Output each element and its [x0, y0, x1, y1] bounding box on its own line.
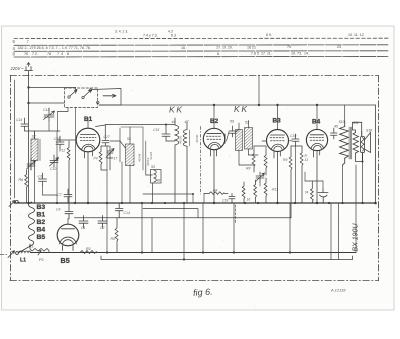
svg-text:53: 53 — [127, 137, 131, 141]
chassis frame right edge — [378, 76, 380, 281]
svg-text:16.: 16. — [181, 46, 186, 50]
wire y194 — [143, 193, 193, 195]
svg-text:75: 75 — [287, 45, 291, 49]
speaker — [361, 132, 371, 162]
band switch wavy wire — [20, 202, 35, 252]
bus y252 — [31, 252, 357, 254]
chassis frame left edge — [10, 76, 12, 281]
node speaker return — [362, 161, 364, 163]
svg-text:7.4 y 7.3.: 7.4 y 7.3. — [143, 34, 158, 38]
trimmer lower-left — [27, 158, 36, 170]
svg-text:R9: R9 — [283, 158, 287, 162]
switch contact 2 — [82, 96, 84, 98]
svg-text:C14: C14 — [16, 118, 22, 122]
node right bus end — [374, 202, 377, 205]
bus y215 — [75, 217, 292, 219]
svg-text:A 12118: A 12118 — [330, 288, 346, 293]
resistor right of B2 — [264, 178, 267, 203]
wire mains down — [28, 75, 30, 203]
svg-text:S10: S10 — [339, 120, 345, 124]
wire B3 grid left — [262, 140, 302, 203]
table line 4 — [14, 55, 388, 58]
svg-text:Κ Κ: Κ Κ — [234, 104, 247, 114]
wire drop x120 — [110, 128, 120, 162]
svg-text:18 21: 18 21 — [247, 45, 256, 49]
svg-text:17. 19. 20.: 17. 19. 20. — [216, 46, 233, 50]
svg-text:182 2-. 279 26.6. 8 7.5. 7 -.: 182 2-. 279 26.6. 8 7.5. 7 -. 1.9. 77 71… — [18, 46, 91, 50]
resistor R6 — [25, 170, 28, 203]
svg-text:44: 44 — [172, 120, 176, 124]
svg-text:S2: S2 — [32, 135, 36, 139]
trimmer C10 — [50, 155, 59, 167]
bus junction dots — [27, 202, 363, 261]
resistor R1 — [80, 251, 97, 254]
wires B1 area — [88, 118, 175, 218]
svg-text:59: 59 — [230, 120, 234, 124]
tube B3 — [267, 105, 289, 203]
table row texts — [13, 30, 364, 57]
svg-text:C1: C1 — [81, 226, 86, 230]
wire dashed gang vertical — [200, 127, 202, 195]
node C15 top — [165, 124, 167, 126]
IF transformer T2 primary hatched — [236, 123, 243, 165]
svg-text:fig 6.: fig 6. — [193, 287, 213, 298]
node HT feed — [258, 104, 260, 106]
svg-text:220V∼: 220V∼ — [10, 66, 25, 71]
mains plug 220V — [25, 63, 33, 76]
trimmer P3 — [256, 172, 265, 182]
svg-text:B4: B4 — [37, 227, 46, 234]
bus y261 — [101, 256, 353, 260]
oscillator coil 47 — [183, 122, 189, 203]
svg-text:B5: B5 — [37, 234, 46, 241]
svg-text:L1: L1 — [20, 258, 26, 264]
antenna coil L2 hatched — [31, 131, 40, 203]
electrolytic cap B4 cathode — [318, 188, 328, 203]
IF transformer T2 secondary hatched — [245, 121, 253, 156]
svg-text:45: 45 — [334, 125, 338, 129]
HT line top — [99, 104, 376, 106]
svg-text:C19: C19 — [290, 134, 296, 138]
svg-text:C15: C15 — [153, 128, 159, 132]
wire step heater — [143, 209, 198, 218]
svg-text:C4: C4 — [56, 208, 61, 212]
svg-text:C2: C2 — [100, 226, 105, 230]
svg-text:46648: 46648 — [138, 153, 142, 162]
capacitor C8 — [39, 173, 47, 186]
node mains lower — [27, 102, 29, 104]
capacitor C19b — [229, 193, 235, 203]
resistor R12 — [67, 141, 70, 203]
scan speckle — [6, 33, 383, 307]
svg-text:7.8 5 17. 11.: 7.8 5 17. 11. — [251, 52, 272, 56]
coil box L8 — [151, 170, 162, 204]
wire B4 anode to transformer — [343, 105, 345, 203]
capacitor C15 — [162, 125, 170, 142]
wire dashed below bus — [235, 205, 237, 223]
svg-text:Κ Κ: Κ Κ — [169, 105, 182, 115]
svg-text:S5: S5 — [151, 165, 155, 169]
wires B4 cathode joint — [305, 172, 323, 188]
capacitor C7 — [64, 189, 72, 203]
IF transformer T1 primary (hatched) — [126, 127, 135, 203]
svg-text:13: 13 — [305, 158, 309, 162]
tube B4 — [306, 105, 327, 203]
bus y203 — [14, 202, 376, 204]
frame aerial L1 — [0, 251, 31, 258]
capacitor C18 — [56, 136, 64, 149]
svg-text:17: 17 — [114, 157, 118, 161]
antenna lead wire — [14, 80, 16, 198]
svg-text:C10: C10 — [50, 167, 56, 171]
right drop wire — [375, 105, 377, 203]
node B2 anode — [213, 104, 215, 106]
capacitor C2 — [98, 216, 107, 229]
resistor R14 cathode — [311, 183, 314, 203]
tube B2 — [203, 105, 225, 203]
svg-text:46630: 46630 — [179, 135, 183, 144]
svg-text:16: 16 — [247, 198, 251, 202]
table line 1 (dashed) — [14, 37, 388, 39]
node y194 — [192, 193, 194, 195]
svg-text:46619: 46619 — [146, 157, 150, 166]
svg-text:B5: B5 — [61, 256, 70, 265]
svg-text:3. 4. 1 3.: 3. 4. 1 3. — [115, 30, 128, 34]
svg-text:R1: R1 — [86, 247, 91, 251]
svg-text:10. 11. 12: 10. 11. 12 — [348, 33, 364, 37]
capacitor C17 — [96, 125, 110, 146]
resistor R7 — [264, 150, 267, 175]
svg-text:C17: C17 — [104, 135, 110, 139]
capacitor C14 — [21, 118, 28, 131]
capacitor C1 — [79, 216, 88, 229]
switch contact 3 — [89, 89, 91, 91]
svg-text:6.: 6. — [217, 52, 220, 56]
svg-text:R8: R8 — [246, 167, 250, 171]
potentiometer P2 — [30, 244, 49, 255]
svg-text:8 9.: 8 9. — [266, 33, 272, 37]
resistor R16 — [242, 182, 245, 203]
capacitor at B4 grid — [331, 128, 338, 139]
svg-text:S11: S11 — [353, 121, 359, 125]
svg-text:R5: R5 — [111, 237, 116, 241]
switch S13 dashed box — [29, 88, 122, 108]
svg-text:P4: P4 — [94, 157, 98, 161]
resistor P4 — [99, 146, 107, 170]
svg-text:6.3: 6.3 — [171, 33, 176, 37]
chassis frame bottom edge — [10, 280, 379, 282]
svg-text:BX 190U: BX 190U — [353, 223, 360, 252]
svg-text:C14: C14 — [124, 211, 130, 215]
tube B1 — [76, 122, 100, 203]
svg-text:B3: B3 — [273, 118, 282, 125]
output transformer secondary S11 — [353, 122, 363, 161]
svg-text:C19: C19 — [222, 199, 228, 203]
chassis frame top edge — [10, 75, 379, 77]
svg-text:19. 73. 14.: 19. 73. 14. — [291, 51, 309, 55]
resistor R6b horizontal — [204, 192, 228, 195]
wires left section — [25, 108, 76, 204]
svg-text:46640: 46640 — [195, 134, 199, 143]
svg-text:76 7 2. 78 7: 76 7 2. 78 7 4 8 — [24, 52, 69, 56]
arrow inside switch box — [103, 94, 116, 97]
svg-text:R12: R12 — [59, 149, 65, 153]
table line 2 — [14, 44, 388, 47]
svg-text:52: 52 — [245, 121, 249, 125]
node B3 anode — [276, 104, 278, 106]
svg-text:R3: R3 — [29, 245, 33, 249]
svg-text:74: 74 — [305, 191, 309, 195]
svg-text:R6: R6 — [19, 178, 24, 182]
capacitor C19a — [292, 134, 299, 146]
wire speaker down — [362, 162, 364, 204]
svg-text:B3: B3 — [37, 204, 46, 211]
output transformer primary S10 — [340, 122, 349, 166]
svg-text:B2: B2 — [37, 219, 46, 226]
capacitor C4 — [65, 203, 73, 219]
capacitor C16 — [116, 203, 124, 218]
transformer core — [349, 127, 351, 159]
svg-text:C13: C13 — [43, 108, 49, 112]
aerial terminal left — [9, 200, 20, 206]
oscillator coil 44 — [175, 118, 179, 203]
wire anode link y124 — [105, 124, 175, 126]
svg-text:23: 23 — [337, 45, 341, 49]
wire drops lower area — [107, 165, 356, 260]
trimmer C9 — [106, 146, 114, 170]
resistor R9 — [289, 146, 292, 218]
svg-text:R4: R4 — [213, 189, 217, 193]
svg-text:48: 48 — [157, 179, 161, 183]
svg-text:B2: B2 — [210, 118, 219, 125]
trimmer C13 — [44, 108, 55, 121]
wires B2 area — [204, 130, 266, 204]
svg-text:B4: B4 — [312, 119, 321, 126]
node B4 anode — [316, 104, 318, 106]
node mains/switch — [27, 86, 29, 88]
svg-text:P2: P2 — [39, 258, 44, 262]
table line 3 — [14, 50, 388, 53]
switch contact 1 — [68, 96, 70, 98]
resistor R8 — [252, 150, 255, 172]
svg-text:-C8: -C8 — [37, 175, 43, 179]
resistor mid — [254, 180, 257, 203]
capacitor at B2 grid — [229, 126, 236, 137]
feed wire x259 — [258, 75, 260, 105]
wire B1 grid left — [57, 139, 76, 141]
resistor R13 — [300, 146, 303, 203]
resistor R5 — [115, 218, 118, 253]
tube B5 — [57, 219, 79, 251]
svg-text:S18: S18 — [366, 129, 372, 133]
switch wire loop — [92, 89, 121, 106]
shield box T1 — [121, 127, 146, 175]
